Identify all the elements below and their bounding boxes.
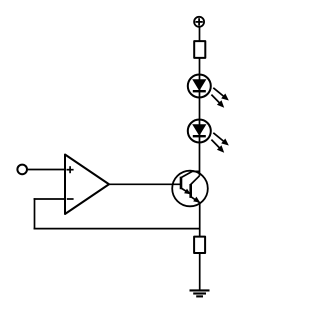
Q1 collector [181, 171, 200, 177]
wire input to op-amp + input [27, 169, 65, 171]
wire emitter to R2 [199, 203, 201, 236]
LED D2 [188, 120, 229, 153]
ground [190, 290, 210, 296]
wire R1 to LED1 to LED2 to collector [199, 58, 201, 176]
Q1 base bar [180, 177, 183, 190]
input terminal [17, 165, 27, 175]
transistor Q1 (darlington pair) [172, 171, 208, 207]
wire feedback: bottom horizontal [34, 228, 200, 230]
resistor R2 [194, 237, 205, 253]
op-amp U1 [65, 155, 109, 215]
wire V+ to R1 [199, 27, 201, 41]
wire feedback: left vertical [34, 198, 36, 229]
resistor R1 [194, 41, 205, 58]
Q2 collector [191, 176, 200, 185]
power terminal V+ [194, 17, 204, 27]
wire R2 to ground [199, 254, 201, 291]
Q1 emitter w/ arrow [181, 188, 191, 194]
Q2 emitter w/ arrow [191, 197, 201, 204]
wire op-amp output to base [108, 183, 181, 185]
Q2 base bar [189, 184, 192, 198]
LED D1 [188, 75, 229, 108]
wire feedback: to minus input [34, 198, 65, 200]
